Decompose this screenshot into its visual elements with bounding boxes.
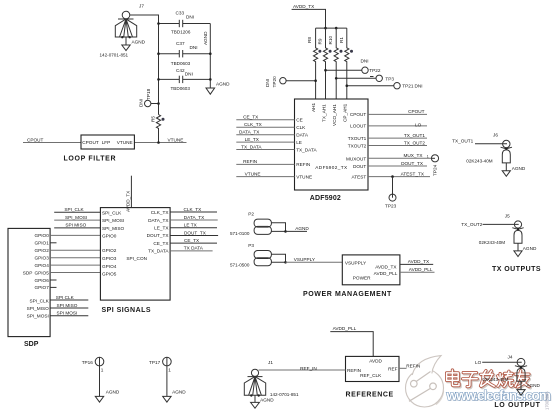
svg-text:TP3: TP3 [385, 76, 394, 81]
svg-text:REFIN: REFIN [406, 364, 420, 369]
svg-text:CP_AH1: CP_AH1 [343, 103, 348, 122]
svg-text:TBD1206: TBD1206 [171, 30, 191, 35]
svg-text:CE_TX: CE_TX [153, 241, 169, 246]
wire ATEST_TX [368, 171, 430, 176]
ground AGND J7 [122, 45, 130, 51]
svg-text:TP21: TP21 [402, 84, 414, 89]
connector J6 [452, 133, 526, 171]
svg-text:SPI_CLK: SPI_CLK [64, 207, 84, 212]
svg-text:DNI: DNI [265, 79, 270, 87]
svg-text:REF_CLK: REF_CLK [360, 373, 382, 378]
svg-text:TP23: TP23 [385, 204, 397, 209]
svg-text:J6: J6 [493, 133, 498, 138]
svg-text:AVDD: AVDD [369, 359, 382, 364]
svg-text:VTUNE: VTUNE [245, 171, 261, 176]
svg-text:CLK_TX: CLK_TX [184, 207, 203, 212]
svg-text:LE: LE [296, 140, 302, 145]
svg-text:MUXOUT: MUXOUT [346, 156, 366, 161]
svg-text:SPI_CLK: SPI_CLK [30, 299, 50, 304]
svg-text:LE_TX: LE_TX [154, 226, 169, 231]
svg-text:TX_OUT2: TX_OUT2 [461, 222, 482, 227]
svg-text:TP18: TP18 [146, 88, 151, 100]
svg-text:AVDD_PLL: AVDD_PLL [374, 271, 398, 276]
svg-text:LFP: LFP [102, 140, 111, 145]
svg-text:GPIO0: GPIO0 [34, 233, 49, 238]
power AVDD_PLL [330, 326, 373, 356]
wire CPOUT right [368, 109, 427, 114]
svg-text:REF: REF [388, 366, 398, 371]
svg-text:TBD0603: TBD0603 [171, 86, 191, 91]
wire CE_TX [236, 115, 294, 120]
svg-text:142-0701-851: 142-0701-851 [100, 53, 129, 58]
connector J7 [100, 4, 146, 58]
svg-text:TX_OUT1: TX_OUT1 [404, 133, 425, 138]
svg-text:TP24: TP24 [433, 164, 438, 176]
svg-text:CE_TX: CE_TX [184, 238, 200, 243]
svg-text:DOUT_TX: DOUT_TX [147, 233, 170, 238]
svg-text:AVDD_TX: AVDD_TX [408, 259, 430, 264]
svg-text:TX_AH1: TX_AH1 [321, 104, 326, 122]
svg-text:SDP: SDP [23, 271, 33, 276]
svg-text:1: 1 [101, 368, 104, 373]
svg-text:571-0500: 571-0500 [230, 262, 250, 267]
svg-text:TX_DATA: TX_DATA [148, 249, 169, 254]
svg-text:GPIO3: GPIO3 [34, 256, 49, 261]
wire AVDD bus [316, 27, 347, 29]
svg-text:DOUT_TX: DOUT_TX [401, 161, 424, 166]
test point TP24 [427, 155, 439, 177]
svg-text:SPI MISO: SPI MISO [65, 223, 86, 228]
svg-text:SPI_MOSI: SPI_MOSI [65, 215, 87, 220]
svg-text:LOOP FILTER: LOOP FILTER [64, 155, 116, 162]
svg-text:TBD0603: TBD0603 [171, 61, 191, 66]
svg-text:REFIN: REFIN [243, 159, 257, 164]
svg-text:DNI: DNI [185, 72, 193, 77]
wire GPIO0 [50, 234, 100, 236]
svg-text:17008906: 17008906 [545, 391, 550, 410]
resistor R1 [339, 28, 353, 99]
svg-text:LO OUTPUT: LO OUTPUT [494, 402, 540, 409]
svg-text:TX OUTPUTS: TX OUTPUTS [492, 266, 541, 273]
svg-text:AH1: AH1 [311, 102, 316, 112]
svg-text:GPIO0: GPIO0 [102, 233, 117, 238]
wire AVDD_TX out [400, 259, 433, 264]
svg-text:TP17: TP17 [149, 360, 161, 365]
wire DOUT_TX out [170, 230, 218, 235]
svg-text:GPIO5: GPIO5 [102, 272, 117, 277]
svg-text:SPI MISO: SPI MISO [57, 303, 78, 308]
svg-text:R9: R9 [318, 38, 323, 44]
svg-text:AGND: AGND [512, 166, 526, 171]
wire GPIO1 stub [50, 242, 56, 244]
wire CPOUT [23, 137, 81, 142]
svg-text:TP20: TP20 [272, 76, 277, 88]
svg-text:CPOUT: CPOUT [27, 137, 44, 142]
wire SPI_MISO top [54, 223, 100, 228]
ground AGND J1 [251, 402, 260, 408]
svg-text:TX_OUT1: TX_OUT1 [452, 138, 473, 143]
test point TP18 [138, 88, 160, 107]
svg-text:P3: P3 [248, 243, 254, 248]
svg-text:GPIO4: GPIO4 [102, 264, 117, 269]
svg-text:CLK: CLK [296, 125, 306, 130]
svg-text:SDP: SDP [24, 341, 39, 348]
wire GPIO6 stub [50, 279, 56, 281]
connector J4 [475, 354, 541, 389]
logo elecfans [406, 356, 444, 407]
wire GPIO4 [50, 264, 100, 266]
wire SPI_MISO bottom stub [50, 303, 88, 308]
svg-text:GPIO7: GPIO7 [34, 285, 49, 290]
svg-text:TX_DATA: TX_DATA [241, 144, 262, 149]
svg-text:AGND: AGND [106, 390, 120, 395]
wire CE_TX out [170, 238, 217, 243]
svg-text:VTUNE: VTUNE [168, 137, 184, 142]
svg-text:DOUT: DOUT [353, 164, 366, 169]
wire AVDD_PLL out [400, 267, 435, 272]
connector P3 [230, 243, 287, 267]
svg-text:CPOUT: CPOUT [82, 140, 99, 145]
wire CLK_TX out [170, 207, 217, 212]
test point TP16 [82, 357, 120, 396]
wire DOUT_TX [368, 161, 427, 166]
connector J1 [244, 360, 299, 402]
svg-text:R8: R8 [307, 37, 312, 43]
ground AGND J5 [514, 251, 522, 257]
svg-text:R5: R5 [151, 116, 156, 122]
ground AGND caps [206, 88, 215, 94]
wire TX_OUT2 stub [368, 140, 427, 145]
svg-text:www.elecfans.com: www.elecfans.com [446, 388, 552, 403]
svg-text:CPOUT: CPOUT [350, 112, 367, 117]
connector J5 [461, 214, 537, 251]
test point TP21 [346, 83, 423, 89]
svg-text:ATEST_TX: ATEST_TX [401, 171, 425, 176]
svg-text:TXOUT2: TXOUT2 [348, 143, 367, 148]
svg-text:POWER MANAGEMENT: POWER MANAGEMENT [303, 291, 392, 298]
connector P2 [230, 212, 287, 236]
svg-text:LE_TX: LE_TX [245, 137, 260, 142]
svg-text:AVDD_PLL: AVDD_PLL [409, 267, 433, 272]
svg-text:LO: LO [475, 360, 482, 365]
wire TX_DATA [236, 144, 294, 149]
svg-text:REFERENCE: REFERENCE [346, 391, 394, 398]
svg-text:571-0100: 571-0100 [230, 231, 250, 236]
svg-text:AVDD_TX: AVDD_TX [126, 190, 131, 212]
capacitor C33 [159, 11, 211, 35]
wire TX_OUT1 stub [368, 133, 427, 138]
wire AGND P2 [286, 226, 310, 231]
svg-text:SPI SIGNALS: SPI SIGNALS [102, 307, 151, 314]
wire GPIO3 [50, 257, 100, 259]
svg-text:DATA: DATA [296, 133, 309, 138]
resistor R5 [151, 115, 165, 143]
svg-text:CPOUT: CPOUT [408, 109, 425, 114]
wire VTUNE [134, 137, 186, 144]
wire REFIN out [399, 364, 420, 369]
svg-text:GPIO6: GPIO6 [34, 278, 49, 283]
wire REF_IN [259, 366, 346, 371]
wire GPIO2 [50, 249, 100, 251]
test point TP3 [335, 75, 394, 81]
wire J7 to cap bus [130, 15, 159, 115]
test point TP20 [265, 76, 317, 88]
svg-text:P2: P2 [248, 212, 254, 217]
wire SPI_MOSI bottom stub [50, 311, 88, 316]
svg-text:AGND: AGND [132, 40, 146, 45]
svg-text:MUX_TX: MUX_TX [403, 153, 423, 158]
svg-text:AGND: AGND [216, 82, 230, 87]
wire LE_TX [236, 137, 294, 142]
watermark text chinese [447, 370, 531, 388]
svg-text:VTUNE: VTUNE [296, 174, 312, 179]
svg-text:C33: C33 [176, 11, 185, 16]
svg-text:AGND: AGND [295, 226, 309, 231]
svg-text:VSUPPLY: VSUPPLY [294, 257, 316, 262]
wire DATA_TX [236, 130, 294, 135]
test point TP22 [324, 59, 381, 74]
svg-text:J7: J7 [139, 4, 144, 9]
svg-text:TX_OUT2: TX_OUT2 [404, 140, 425, 145]
svg-text:GPIO1: GPIO1 [34, 241, 49, 246]
svg-text:AGND: AGND [523, 246, 537, 251]
svg-text:C37: C37 [176, 41, 185, 46]
svg-text:C42: C42 [176, 68, 185, 73]
svg-text:AGND: AGND [203, 31, 208, 45]
wire SPI_CLK top [54, 207, 100, 212]
capacitor C37 [159, 41, 211, 66]
svg-text:TP16: TP16 [82, 360, 94, 365]
svg-text:SPI_MOSI: SPI_MOSI [27, 314, 49, 319]
resistor R9 [318, 28, 332, 99]
svg-text:SPI_MISO: SPI_MISO [102, 226, 124, 231]
svg-text:AVDD_PLL: AVDD_PLL [333, 326, 357, 331]
svg-text:ADF5902: ADF5902 [310, 195, 341, 202]
test point TP23 [385, 175, 397, 208]
connector SDP box [8, 228, 50, 348]
svg-text:GPIO5: GPIO5 [34, 270, 49, 275]
svg-text:CLK_TX: CLK_TX [244, 122, 263, 127]
svg-text:AGND: AGND [260, 398, 274, 403]
wire LO right [368, 123, 427, 128]
svg-text:VCO_AH1: VCO_AH1 [332, 104, 337, 126]
svg-text:GPIO4: GPIO4 [34, 263, 49, 268]
resistor R8 [307, 28, 321, 99]
svg-text:SPI MOSI: SPI MOSI [57, 311, 78, 316]
chip SPI_CON box [100, 208, 170, 314]
wire GPIO5 [50, 272, 100, 274]
wire LE_TX out [170, 223, 217, 228]
svg-text:AGND: AGND [172, 390, 186, 395]
svg-text:LOOUT: LOOUT [350, 124, 366, 129]
svg-text:DOUT_TX: DOUT_TX [184, 230, 207, 235]
ground AGND J6 [502, 171, 510, 177]
svg-text:TX DATA: TX DATA [184, 246, 204, 251]
svg-text:SPI_MOSI: SPI_MOSI [102, 218, 124, 223]
wire CLK_TX [236, 122, 294, 127]
svg-text:02K243-40M: 02K243-40M [482, 377, 508, 382]
svg-text:DATA_TX: DATA_TX [239, 130, 260, 135]
svg-text:ATEST: ATEST [352, 174, 367, 179]
regulator POWER box [303, 255, 400, 298]
loop filter box LFP [64, 135, 135, 162]
svg-text:AVDD_TX: AVDD_TX [293, 4, 315, 9]
wire VSUPPLY [286, 257, 343, 262]
svg-text:DNI: DNI [186, 15, 194, 20]
wire SPI_CLK bottom stub [50, 295, 88, 300]
node dots cap bus [157, 22, 160, 25]
svg-text:DNI: DNI [415, 84, 423, 89]
svg-text:AVDD_TX: AVDD_TX [375, 264, 397, 269]
ground AGND TP17 [163, 396, 171, 402]
svg-text:DNI: DNI [190, 45, 198, 50]
svg-text:GPIO2: GPIO2 [102, 248, 117, 253]
svg-text:LE TX: LE TX [184, 223, 198, 228]
wire TX_DATA out [170, 246, 213, 251]
svg-text:J4: J4 [508, 354, 513, 359]
svg-text:1: 1 [168, 368, 171, 373]
wire GPIO7 stub [50, 286, 56, 288]
op chip U1 ADF5902 box [295, 99, 369, 202]
svg-text:1: 1 [427, 155, 429, 159]
svg-text:TX_DATA: TX_DATA [296, 147, 317, 152]
svg-text:REF_IN: REF_IN [300, 366, 317, 371]
svg-text:GPIO3: GPIO3 [102, 256, 117, 261]
svg-text:CE_TX: CE_TX [243, 115, 259, 120]
svg-text:DNI: DNI [138, 99, 143, 107]
svg-text:POWER: POWER [353, 275, 371, 280]
oscillator REF_CLK box [346, 356, 400, 398]
svg-text:R1: R1 [339, 37, 344, 43]
svg-text:DATA_TX: DATA_TX [148, 218, 169, 223]
svg-text:REFIN: REFIN [347, 368, 361, 373]
capacitor C42 [159, 68, 211, 91]
wire REFIN left [236, 159, 294, 164]
svg-text:142-0701-851: 142-0701-851 [270, 392, 299, 397]
svg-text:SPI_MISO: SPI_MISO [27, 306, 49, 311]
resistor R10 [328, 28, 343, 99]
ground AGND J4 [517, 390, 525, 396]
wire SPI_MOSI top [54, 215, 100, 220]
svg-text:REFIN: REFIN [296, 162, 310, 167]
svg-text:J1: J1 [268, 360, 273, 365]
svg-text:CE: CE [296, 118, 303, 123]
wire MUX_TX [368, 153, 431, 158]
svg-text:SPI CLK: SPI CLK [56, 295, 75, 300]
wire VTUNE left [236, 171, 294, 176]
svg-text:VTUNE: VTUNE [117, 140, 133, 145]
svg-text:GPIO2: GPIO2 [34, 248, 49, 253]
power AVDD_TX stub above SPI box [126, 176, 132, 212]
svg-text:SPI_CON: SPI_CON [126, 256, 147, 261]
svg-text:DNI: DNI [361, 59, 369, 64]
svg-text:SPI_CLK: SPI_CLK [102, 210, 122, 215]
test point TP17 [149, 357, 186, 396]
cap ground rail [209, 24, 211, 89]
svg-text:J5: J5 [505, 214, 510, 219]
svg-text:CLK_TX: CLK_TX [151, 210, 170, 215]
svg-text:TXOUT1: TXOUT1 [348, 136, 367, 141]
svg-text:VSUPPLY: VSUPPLY [345, 261, 367, 266]
svg-text:LO: LO [415, 123, 422, 128]
svg-text:AGND: AGND [526, 383, 540, 388]
svg-text:02K243-40M: 02K243-40M [479, 240, 505, 245]
wire DATA_TX out [170, 215, 218, 220]
svg-text:DATA_TX: DATA_TX [184, 215, 205, 220]
ground AGND TP16 [95, 396, 103, 402]
svg-text:TP22: TP22 [369, 68, 381, 73]
power AVDD_TX top [292, 4, 326, 28]
svg-text:R10: R10 [328, 36, 333, 45]
svg-text:ADF5902_TX: ADF5902_TX [315, 165, 348, 170]
svg-text:02K243-40M: 02K243-40M [466, 159, 492, 164]
